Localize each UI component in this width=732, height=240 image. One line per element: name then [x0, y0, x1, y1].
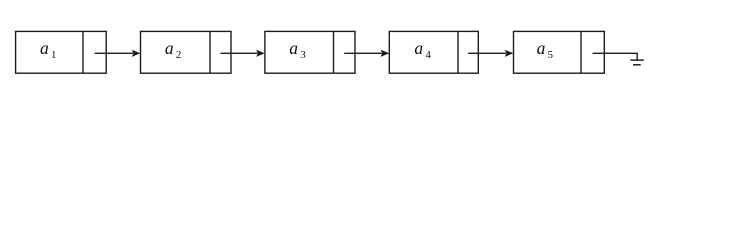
label a3: [289, 38, 306, 61]
arrowhead 2: [256, 50, 265, 57]
node 3 box: [265, 31, 355, 73]
arrowhead 1: [132, 50, 141, 57]
node 2 box: [141, 31, 232, 73]
ground bar 1: [630, 59, 643, 61]
ground bar 2: [633, 64, 641, 66]
label a4: [414, 38, 431, 61]
wire link 3 to 4: [344, 52, 382, 54]
node 4 divider: [457, 31, 459, 73]
arrowhead 4: [505, 50, 514, 57]
label a2: [165, 38, 181, 61]
svg-text:a2: a2: [165, 38, 181, 61]
label a5: [537, 38, 554, 61]
node 1 divider: [82, 31, 84, 73]
node 5 divider: [580, 31, 582, 73]
svg-text:a5: a5: [537, 38, 554, 61]
node 4 box: [389, 31, 478, 73]
node 1 box: [16, 31, 107, 73]
wire link 5 to ground: [593, 53, 638, 60]
svg-text:a4: a4: [414, 38, 431, 61]
svg-text:a1: a1: [40, 38, 56, 61]
node 2 divider: [209, 31, 211, 73]
node 5 box: [514, 31, 605, 73]
svg-text:a3: a3: [289, 38, 306, 61]
wire link 1 to 2: [95, 52, 133, 54]
arrowhead 3: [381, 50, 390, 57]
node 3 divider: [333, 31, 335, 73]
wire link 2 to 3: [221, 52, 258, 54]
label a1: [40, 38, 56, 61]
wire link 4 to 5: [468, 52, 506, 54]
